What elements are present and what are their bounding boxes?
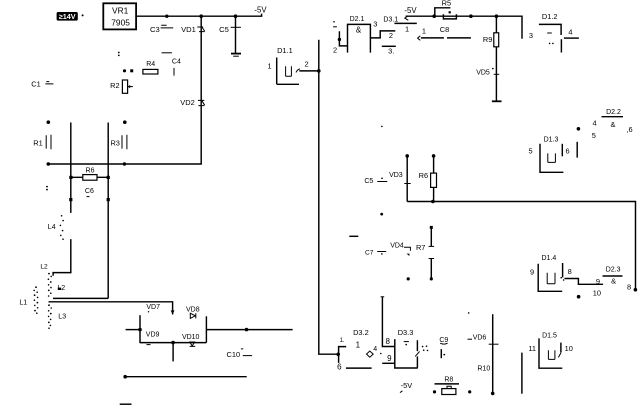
svg-text:6: 6 <box>337 363 342 372</box>
svg-text:D1.5: D1.5 <box>542 332 557 339</box>
node dots on row wire <box>47 162 127 166</box>
wire L2 tap to vertical <box>53 288 108 299</box>
svg-text:VR1: VR1 <box>112 6 129 16</box>
resistor R3 <box>110 120 126 149</box>
gate D1.3 <box>529 137 570 173</box>
wire bridge output <box>206 328 292 332</box>
svg-text:C10: C10 <box>227 350 241 359</box>
label L2 (upper tap) <box>40 264 48 271</box>
svg-text:,6: ,6 <box>627 125 633 134</box>
svg-text:L2: L2 <box>40 264 48 271</box>
svg-text:1.: 1. <box>340 338 345 344</box>
gate D2.1 <box>348 16 378 53</box>
svg-text:C8: C8 <box>440 25 449 34</box>
svg-text:R9: R9 <box>483 35 492 44</box>
resistor R1 <box>33 120 51 149</box>
gate D1.5 <box>522 332 573 393</box>
wire D2.1 output to D3.1 <box>370 31 395 40</box>
svg-text:1: 1 <box>422 27 426 36</box>
svg-text:VD2: VD2 <box>180 98 194 107</box>
resistor R6 (mid) <box>419 154 437 201</box>
gate D1.4 <box>530 255 572 291</box>
svg-text:7905: 7905 <box>111 17 130 27</box>
ground (R9) <box>492 100 502 102</box>
svg-text:D2.1: D2.1 <box>350 16 365 23</box>
transformer winding (left column) <box>33 286 38 314</box>
svg-text:8: 8 <box>385 337 390 346</box>
svg-text:1: 1 <box>268 62 272 71</box>
svg-text:R8: R8 <box>444 377 453 384</box>
svg-text:R3: R3 <box>110 138 119 147</box>
diode VD10 <box>182 334 200 347</box>
svg-text:D1.1: D1.1 <box>277 46 293 55</box>
svg-text:5: 5 <box>529 147 533 156</box>
diode VD1 <box>181 25 205 34</box>
svg-text:D2.2: D2.2 <box>606 109 621 116</box>
node dot mid <box>380 126 383 216</box>
svg-text:&: & <box>611 276 616 285</box>
svg-text:9: 9 <box>530 268 534 277</box>
svg-text:R6: R6 <box>86 168 95 175</box>
diode VD7 <box>146 304 174 314</box>
resistor R5 <box>435 0 457 19</box>
svg-text:C7: C7 <box>365 250 374 257</box>
wire D1.2 output <box>561 38 579 52</box>
svg-text:C5: C5 <box>364 178 373 185</box>
net -5V (top left) <box>254 6 267 15</box>
svg-text:2: 2 <box>333 46 337 55</box>
svg-text:VD3: VD3 <box>389 172 403 179</box>
gate D1.2 <box>539 12 573 44</box>
transformer winding (right column) <box>48 273 52 329</box>
svg-text:8: 8 <box>568 267 572 276</box>
gate D2.3 <box>603 267 632 292</box>
svg-text:5: 5 <box>592 131 596 140</box>
svg-text:2: 2 <box>389 31 393 40</box>
svg-text:R10: R10 <box>477 366 490 373</box>
capacitor C5 (mid) <box>364 178 387 185</box>
svg-text:&: & <box>611 120 616 129</box>
svg-text:D3.3: D3.3 <box>398 328 414 337</box>
ground dash bottom left <box>120 403 132 405</box>
svg-text:6: 6 <box>566 147 570 156</box>
svg-text:&: & <box>356 25 362 34</box>
dash mark <box>349 235 358 237</box>
svg-text:2: 2 <box>305 60 309 69</box>
svg-text:3: 3 <box>373 20 377 29</box>
input label 214V (inverse) <box>57 12 84 21</box>
wire long vertical to D3.2 <box>319 40 340 356</box>
regulator VR1 7905 <box>103 3 136 29</box>
wire bridge input <box>126 328 142 332</box>
svg-text:L4: L4 <box>48 224 56 231</box>
node dot below C7 <box>407 277 410 280</box>
svg-text:D1.2: D1.2 <box>542 12 558 21</box>
label L1 <box>19 300 27 307</box>
node squares transformer row <box>69 198 110 201</box>
svg-text:VD6: VD6 <box>473 334 487 341</box>
svg-text:9: 9 <box>387 354 392 363</box>
svg-text:C1: C1 <box>31 79 40 88</box>
svg-text:-5V: -5V <box>254 6 267 15</box>
node dot (D2.2 input) <box>577 127 581 131</box>
capacitor C8 <box>418 25 471 40</box>
capacitor C4 <box>162 53 181 76</box>
capacitor C10 <box>227 349 253 359</box>
svg-text:C4: C4 <box>172 59 181 66</box>
svg-text:D2.3: D2.3 <box>606 267 621 274</box>
gate D3.2 <box>337 328 372 372</box>
svg-text:-5V: -5V <box>404 6 417 15</box>
capacitor C9 <box>439 337 448 358</box>
inductor L4 <box>48 215 64 240</box>
svg-text:R4: R4 <box>146 61 155 68</box>
label L2 (lower) <box>57 285 65 292</box>
switch D3.1 <box>382 16 417 56</box>
wire D1.1 output <box>299 69 320 73</box>
net -5V (bottom) <box>400 381 412 393</box>
svg-text:C3: C3 <box>150 25 160 34</box>
wire D1.4 output to D2.3 <box>560 277 603 299</box>
svg-text:1: 1 <box>356 340 361 349</box>
svg-text:D3.2: D3.2 <box>353 328 369 337</box>
resistor R6 (left) <box>71 168 108 181</box>
capacitor C3 <box>150 25 173 34</box>
capacitor C6 <box>85 188 94 197</box>
svg-text:10: 10 <box>565 344 573 353</box>
resistor R9 <box>483 16 499 101</box>
node dots near R2 <box>123 69 133 72</box>
svg-text:1: 1 <box>405 25 409 34</box>
svg-text:4: 4 <box>593 119 597 128</box>
svg-text:D3.1: D3.1 <box>383 17 398 24</box>
svg-text:L1: L1 <box>19 300 27 307</box>
svg-text:VD7: VD7 <box>146 304 160 311</box>
wire L3 to bridge <box>49 302 173 315</box>
label L3 <box>58 313 66 320</box>
ground (C5) <box>231 54 241 57</box>
wire D1.3 output <box>576 142 578 158</box>
wire vertical right <box>107 123 109 299</box>
diode VD3 <box>389 154 411 201</box>
gate D2.2 <box>592 109 633 140</box>
svg-text:3: 3 <box>529 31 533 40</box>
svg-text:C6: C6 <box>85 188 94 195</box>
svg-text:R6: R6 <box>419 171 428 180</box>
svg-text:-5V: -5V <box>401 381 413 390</box>
svg-text:D1.4: D1.4 <box>542 255 557 262</box>
node junction dots on top wire <box>165 14 237 18</box>
wire VD1/VD2 vertical <box>48 16 201 164</box>
resistor R4 <box>143 61 158 74</box>
capacitor C1 <box>31 79 53 88</box>
wire top right rail <box>406 14 522 38</box>
rectifier bridge frame <box>140 315 206 361</box>
svg-text:3.: 3. <box>388 46 394 55</box>
potentiometer R2 <box>110 80 133 93</box>
diode VD6 and R10 <box>468 312 499 395</box>
colon mark <box>118 52 120 57</box>
svg-text:VD5: VD5 <box>476 70 490 77</box>
svg-text:VD9: VD9 <box>146 331 160 338</box>
gate D1.1 <box>268 46 309 84</box>
resistor R8 <box>433 377 471 395</box>
svg-text:4: 4 <box>568 28 572 37</box>
resistor R7 <box>416 226 434 281</box>
diode VD2 <box>180 98 204 107</box>
capacitor C5 <box>219 16 241 53</box>
pin 3 label D1.2 <box>529 31 533 40</box>
colon mark left <box>46 186 48 191</box>
svg-text:8: 8 <box>627 283 631 292</box>
svg-text:R1: R1 <box>33 138 42 147</box>
diode VD9 <box>146 331 160 344</box>
svg-text:L3: L3 <box>58 313 66 320</box>
svg-text:R7: R7 <box>416 243 425 252</box>
gate D3.3 <box>382 328 428 368</box>
svg-text:VD8: VD8 <box>186 306 200 313</box>
svg-text:VD1: VD1 <box>181 25 196 34</box>
svg-text:R2: R2 <box>110 81 119 90</box>
diode VD8 <box>186 306 200 318</box>
svg-text:R5: R5 <box>442 0 451 8</box>
wire mid rail <box>407 200 637 292</box>
svg-text:10: 10 <box>593 289 601 298</box>
wire into D3.3 pin8 <box>381 297 395 347</box>
svg-text:11: 11 <box>528 344 536 353</box>
capacitor C7 <box>365 250 386 257</box>
svg-text:VD4: VD4 <box>390 242 404 249</box>
svg-text:9: 9 <box>596 277 600 286</box>
wire bottom return <box>123 375 246 379</box>
wire vertical left <box>53 123 71 276</box>
svg-text:D1.3: D1.3 <box>544 137 559 144</box>
wire D2.1 pin2 <box>333 21 347 55</box>
diode VD4 <box>390 242 410 256</box>
svg-text:≥14V: ≥14V <box>59 12 76 21</box>
net -5V (top right) <box>404 6 417 15</box>
svg-text:C5: C5 <box>219 25 229 34</box>
junction diamond pin4 <box>367 346 382 357</box>
svg-text:4: 4 <box>373 346 377 353</box>
node squares R6 row <box>69 176 109 179</box>
diode VD5 <box>476 68 499 77</box>
svg-text:VD10: VD10 <box>182 334 200 341</box>
wire VR1 output to -5V <box>136 14 262 17</box>
